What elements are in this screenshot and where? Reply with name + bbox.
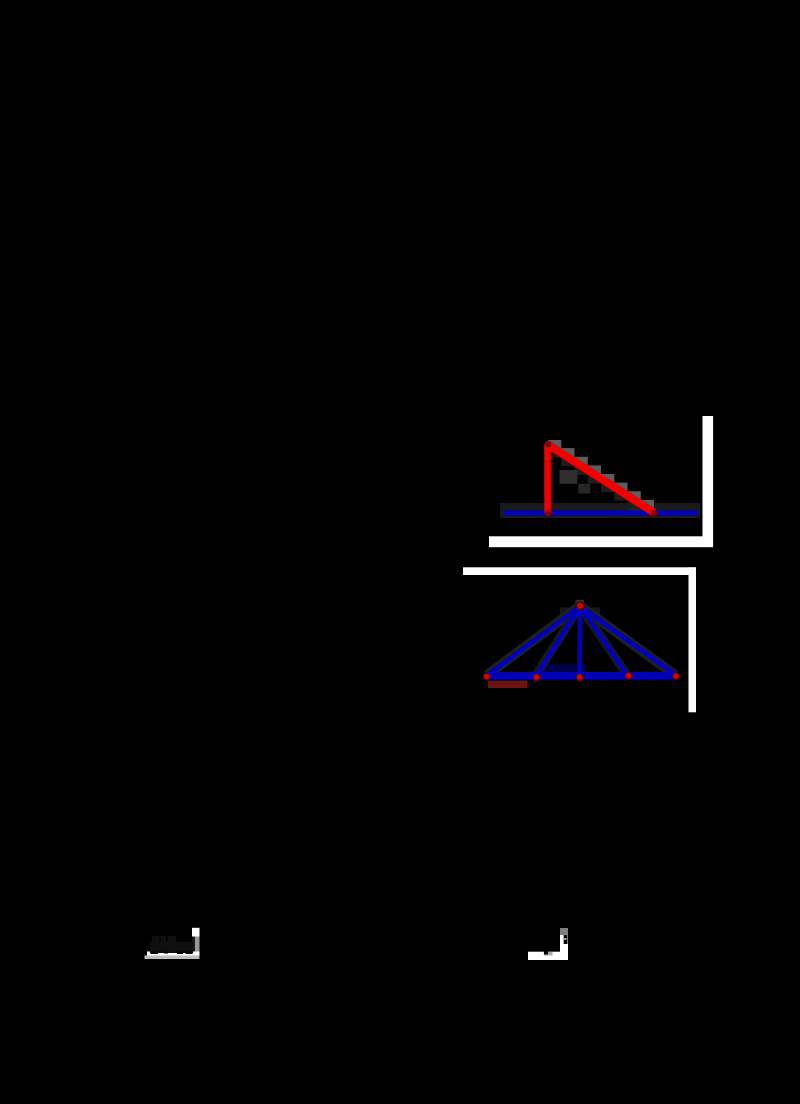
figure 2 apex gray cap <box>576 600 584 603</box>
figure 1 red load diagonal segment <box>548 445 654 513</box>
figure 1 white border right strip <box>703 416 714 547</box>
right equation remnant white bottom bar <box>528 952 560 960</box>
left equation remnant glyph notches <box>151 952 193 955</box>
right equation remnant glyph blob <box>544 950 548 955</box>
right equation remnant superscript glyph <box>564 935 568 944</box>
figure 1 gray band behind baseline <box>500 503 700 518</box>
figure 2 truss diagonals <box>487 606 677 676</box>
figure 2 white border top strip <box>463 567 696 575</box>
figure 2 gray halos of outer diagonals <box>487 606 675 675</box>
figure 1 vertex dot bottom-right <box>651 510 657 516</box>
right equation remnant white right bar <box>560 935 568 960</box>
figure 2 white border right strip <box>689 567 697 712</box>
figure 1 dark lower staircase of load diagonal <box>548 450 654 513</box>
figure 2 dark navy patch <box>541 664 585 673</box>
figure 1 gray staircase halo of load diagonal <box>548 440 654 513</box>
figure 2 node dots <box>483 602 679 680</box>
figure 1 red load vertical segment <box>544 444 551 513</box>
figure 2 maroon support rectangle <box>488 681 528 689</box>
figure 1 white border bottom strip <box>489 536 713 547</box>
figure 2 truss bottom chord <box>486 672 676 679</box>
figure 1 blue baseline <box>504 510 697 515</box>
figure 1 vertex dot bottom-left <box>545 510 551 516</box>
left equation remnant white bottom bar <box>147 952 200 956</box>
figure 1 vertex dot top <box>545 441 551 447</box>
left equation remnant white right bar <box>192 928 200 937</box>
left equation remnant glyph blocks <box>150 936 193 953</box>
figure 1 mid-gray squares below load diagonal <box>560 470 578 484</box>
right equation remnant gray top block <box>560 928 568 935</box>
